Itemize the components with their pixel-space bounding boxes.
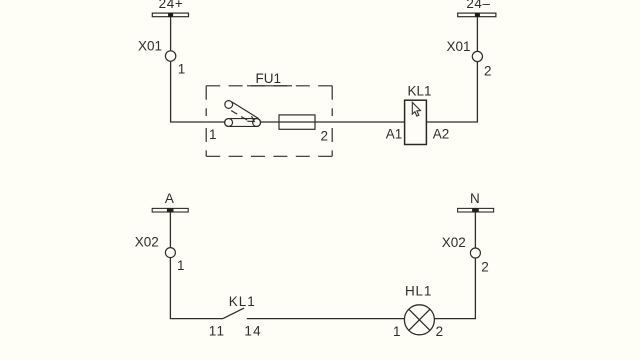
fuse-switch FU1 open-position pivot circle	[225, 101, 233, 109]
terminal X02:2 circle	[470, 248, 480, 258]
svg-text:A2: A2	[433, 126, 450, 141]
svg-text:KL1: KL1	[408, 84, 432, 99]
mouse cursor over coil	[412, 102, 420, 116]
wire into fuse switch	[206, 121, 225, 123]
terminal X01:1 circle	[165, 51, 175, 61]
svg-text:X02: X02	[442, 235, 466, 250]
dashed enclosure box FU1: bottom edge	[206, 155, 332, 157]
dashed enclosure box FU1: right edge lower	[331, 128, 333, 156]
terminal bar A	[152, 208, 188, 212]
enclosure box FU1: solid top segment under label	[247, 85, 292, 87]
svg-text:A1: A1	[386, 126, 403, 141]
wire X01:1 down and right to FU1 box	[171, 61, 207, 122]
svg-text:14: 14	[244, 323, 261, 338]
wire contact to lamp HL1	[247, 318, 405, 320]
terminal bar N	[458, 208, 494, 212]
fuse-switch FU1 right contact circle	[253, 119, 261, 127]
fuse-switch FU1 open-position upper edge	[232, 102, 259, 119]
terminal X02:1 circle	[165, 248, 175, 258]
svg-text:1: 1	[177, 258, 185, 273]
wire X01:2 to 24- bar	[476, 17, 478, 52]
wire X02:2 to N bar	[474, 212, 476, 248]
lamp HL1 cross stroke 1	[409, 309, 430, 330]
lamp HL1 circle	[404, 305, 434, 335]
svg-text:11: 11	[209, 323, 225, 338]
terminal X01:2 circle	[472, 51, 482, 61]
svg-text:HL1: HL1	[405, 284, 432, 299]
svg-text:24+: 24+	[159, 0, 184, 11]
svg-text:N: N	[470, 191, 480, 206]
svg-text:X02: X02	[135, 235, 159, 250]
fuse-switch FU1 closed fuse-link capsule	[225, 119, 261, 127]
wire 24+ bar to X01:1	[170, 17, 172, 51]
dashed enclosure box FU1: left edge lower	[205, 128, 207, 156]
dashed enclosure box FU1: top edge	[206, 85, 332, 87]
svg-text:2: 2	[481, 259, 489, 274]
relay NO contact KL1 blade	[223, 308, 244, 319]
wire A bar to X02:1	[169, 212, 171, 248]
svg-text:2: 2	[321, 129, 329, 144]
svg-text:X01: X01	[138, 39, 162, 54]
svg-text:X01: X01	[447, 39, 471, 54]
wire fuse switch to fuse	[261, 121, 279, 123]
svg-text:FU1: FU1	[256, 71, 282, 86]
wire KL1 A2 right and up to X01:2	[426, 62, 477, 122]
svg-text:KL1: KL1	[229, 294, 256, 309]
wire lamp to X02:2	[434, 258, 475, 319]
svg-text:A: A	[165, 191, 174, 206]
svg-text:1: 1	[209, 127, 217, 142]
svg-text:24–: 24–	[466, 0, 490, 11]
svg-text:1: 1	[393, 324, 401, 339]
terminal bar 24-	[458, 13, 496, 17]
svg-text:2: 2	[484, 64, 492, 79]
relay coil KL1 rectangle	[405, 100, 427, 144]
lamp HL1 cross stroke 2	[409, 309, 430, 330]
fuse-switch FU1 motion arrowhead	[247, 116, 254, 121]
dashed enclosure box FU1: right edge upper	[331, 86, 333, 116]
svg-text:1: 1	[178, 62, 186, 77]
fuse element rectangle	[279, 115, 315, 129]
svg-text:2: 2	[436, 324, 444, 339]
dashed enclosure box FU1: left edge upper	[205, 86, 207, 116]
fuse-switch FU1 open-position lower edge dashed	[231, 111, 250, 122]
wire through fuse to KL1 coil	[279, 121, 405, 123]
terminal bar 24+	[152, 13, 188, 17]
wire X02:1 down and right to contact	[170, 258, 223, 319]
fuse-switch FU1 left contact circle	[225, 119, 233, 127]
